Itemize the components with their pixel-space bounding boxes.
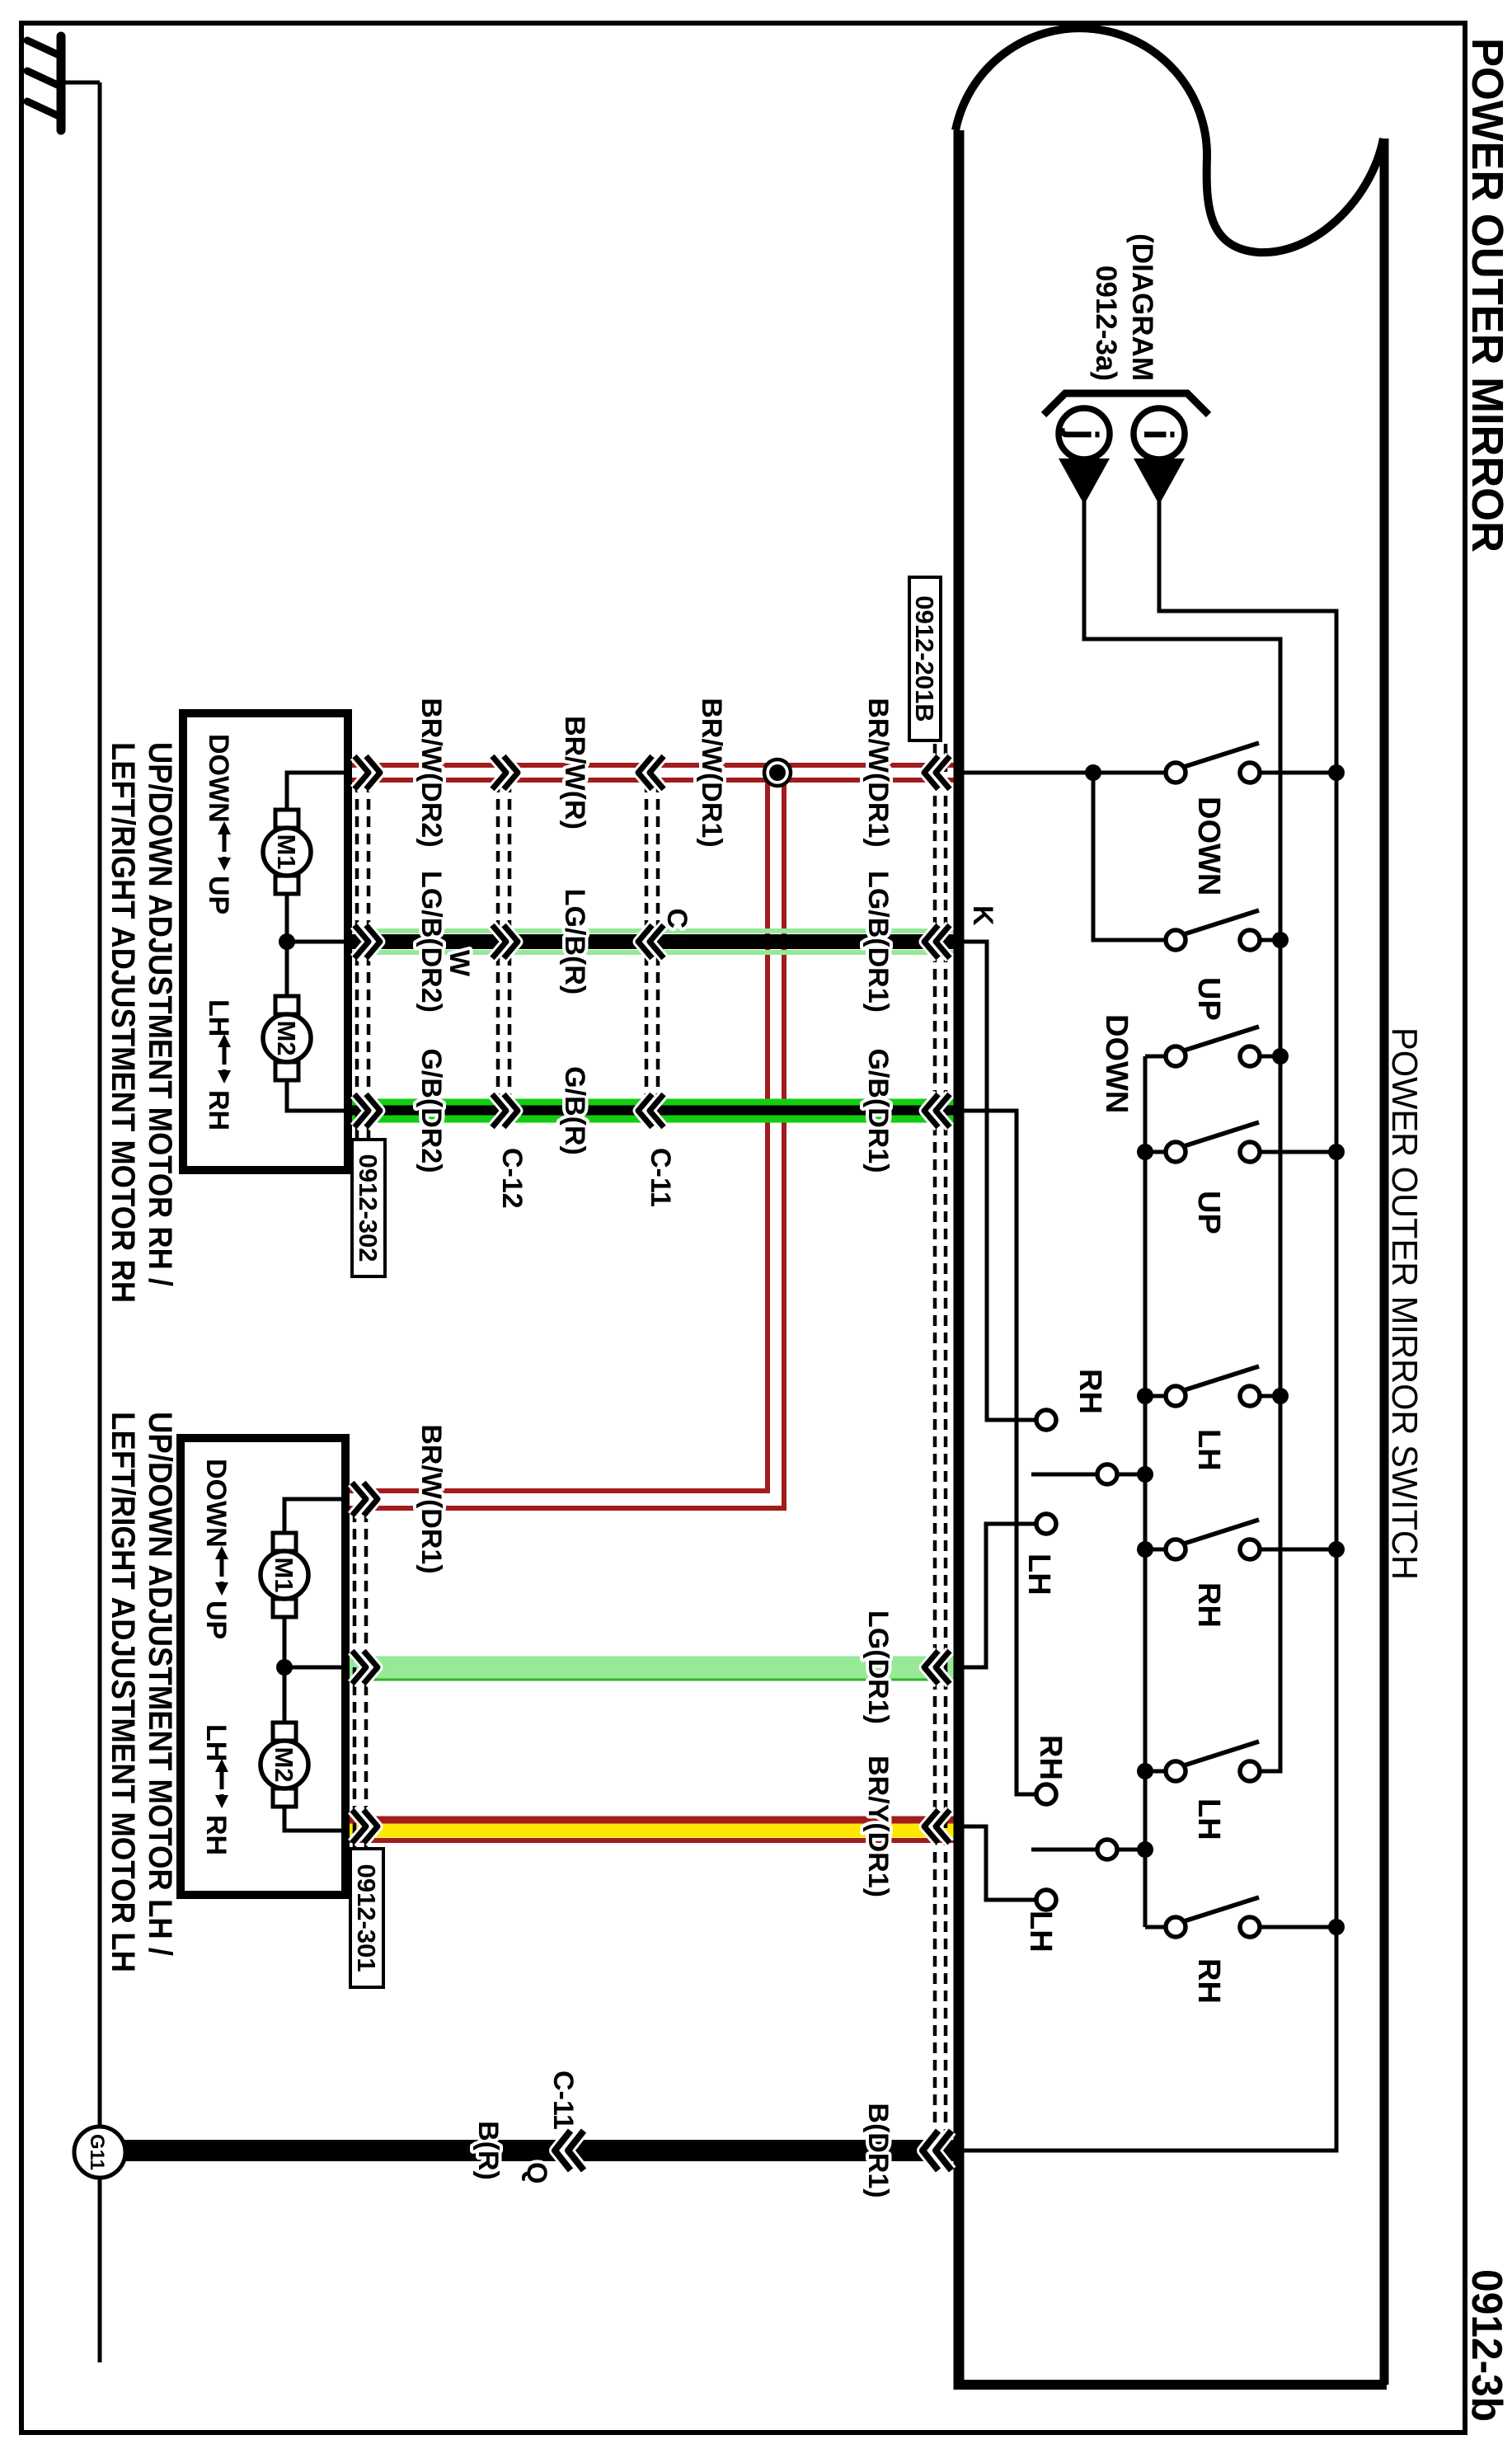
svg-text:RH: RH (1033, 1735, 1068, 1780)
svg-text:RH: RH (1191, 1582, 1226, 1628)
svg-text:UP/DOWN ADJUSTMENT MOTOR LH /: UP/DOWN ADJUSTMENT MOTOR LH / (142, 1412, 178, 1956)
0912-301 label box (350, 1849, 383, 1987)
connector i arrow (1134, 458, 1185, 505)
svg-text:G11: G11 (86, 2134, 108, 2170)
svg-text:BR/Y(DR1): BR/Y(DR1) (862, 1756, 894, 1897)
wire G/B(DR1)+G/B(R)+G/B(DR2) vertical bright-green/black (348, 1099, 959, 1107)
RH motor internal wiring (287, 773, 348, 810)
G/B line from G/B pin to row2 RH contact (959, 1111, 1036, 1794)
wire from i to bus i (959, 501, 1336, 2151)
switch contact pair at x=1879 (RH) (1166, 1539, 1186, 1559)
svg-text:UP: UP (1191, 977, 1226, 1021)
svg-text:B(R): B(R) (472, 2121, 504, 2180)
svg-text:LEFT/RIGHT ADJUSTMENT MOTOR LH: LEFT/RIGHT ADJUSTMENT MOTOR LH (105, 1412, 141, 1972)
svg-text:0912-302: 0912-302 (354, 1154, 383, 1262)
svg-text:0912-3a): 0912-3a) (1090, 266, 1122, 381)
svg-text:RH: RH (200, 1815, 232, 1855)
svg-text:DOWN: DOWN (1099, 1014, 1134, 1113)
sw8 RH column (1145, 1925, 1165, 1930)
sw7 LH column (1145, 1770, 1165, 1774)
0912-301 connector dashed lines (364, 1511, 369, 1849)
connector i circle (1134, 408, 1185, 459)
switch contact pair at x=1281 (DOWN) (1166, 1046, 1186, 1066)
svg-text:LG(DR1): LG(DR1) (862, 1610, 894, 1724)
selector row1 RH contact (1036, 1410, 1056, 1430)
UP/DOWN+LEFT/RIGHT ADJUSTMENT MOTOR LH box (181, 1438, 345, 1895)
POWER OUTER MIRROR SWITCH box outline top edge (1380, 139, 1389, 2385)
svg-text:M2: M2 (270, 1746, 298, 1782)
svg-text:BR/W(DR1): BR/W(DR1) (696, 698, 727, 847)
UP/DOWN+LEFT/RIGHT ADJUSTMENT MOTOR RH box (183, 713, 348, 1170)
ground rail from ground symbol to G11 (98, 82, 102, 2362)
svg-text:LH: LH (1191, 1798, 1226, 1840)
wire LG(DR1) solid pale green to LH motor (345, 1657, 959, 1679)
connector 0912-201B label box (909, 577, 941, 740)
selector row2 RH contact (1036, 1784, 1056, 1804)
svg-text:C-11: C-11 (645, 1148, 676, 1207)
svg-text:LH: LH (1023, 1911, 1058, 1953)
0912-302 connector dashed lines (367, 782, 371, 1140)
wire from j to bus j (1084, 501, 1280, 1771)
svg-text:BR/W(DR2): BR/W(DR2) (416, 698, 447, 847)
B wire C-11 chevron (568, 2131, 584, 2170)
svg-text:j: j (1060, 428, 1106, 440)
common bar (1143, 1056, 1148, 1927)
svg-text:LH: LH (203, 999, 234, 1036)
selector row1 LH contact (1036, 1514, 1056, 1534)
BR/Y line from BR/Y pin to row2 LH contact (959, 1826, 1036, 1900)
svg-text:W: W (444, 950, 475, 977)
connector j circle (1059, 408, 1110, 459)
connector 0912-201B dashed lines (944, 744, 948, 2137)
switch box pin chevrons (936, 756, 950, 789)
svg-text:LEFT/RIGHT ADJUSTMENT MOTOR RH: LEFT/RIGHT ADJUSTMENT MOTOR RH (105, 742, 141, 1303)
bank B UP switch column (1145, 1150, 1165, 1154)
svg-text:M1: M1 (272, 834, 301, 869)
ground G11 circle (74, 2127, 125, 2178)
svg-text:DOWN: DOWN (203, 734, 234, 823)
C-11 chevrons (650, 756, 664, 789)
selector row1 blade (1031, 1473, 1097, 1477)
motor M1 (273, 1533, 296, 1551)
wire UP switch top to bus j (1260, 938, 1280, 942)
switch contact pair at x=937 (DOWN) (1166, 763, 1186, 783)
wire LG/B(DR1)+LG/B(R)+LG/B(DR2) vertical pale-green/black (348, 928, 959, 933)
bracket for diagram reference (1044, 393, 1209, 415)
svg-text:0912-301: 0912-301 (352, 1864, 381, 1972)
svg-text:POWER OUTER MIRROR SWITCH: POWER OUTER MIRROR SWITCH (1384, 1027, 1425, 1580)
C-12 connector dashed lines (508, 782, 512, 1107)
svg-text:M2: M2 (272, 1020, 301, 1055)
C-12 chevrons (492, 756, 506, 789)
switch contact pair at x=1397 (UP) (1166, 1142, 1186, 1162)
svg-text:0912-201B: 0912-201B (910, 595, 939, 722)
B(DR1) pin chevron (936, 2131, 951, 2170)
wire BR/Y(DR1) red/yellow to LH motor (345, 1817, 959, 1824)
switch box left break S-curve (956, 28, 1383, 252)
LH motor internal wiring (284, 1499, 345, 1533)
sw6 RH column (1145, 1548, 1165, 1552)
selector row2 pivot (1116, 1848, 1145, 1852)
svg-text:BR/W(DR1): BR/W(DR1) (862, 698, 894, 847)
svg-text:LH: LH (1191, 1429, 1226, 1471)
svg-text:LH: LH (200, 1724, 232, 1761)
C-11 connector dashed lines (656, 782, 660, 1107)
svg-text:LG/B(DR2): LG/B(DR2) (416, 871, 447, 1013)
svg-text:C: C (661, 908, 693, 928)
motor M1 (275, 810, 298, 828)
selector row1 pivot (1116, 1473, 1145, 1477)
svg-text:G/B(DR2): G/B(DR2) (416, 1048, 447, 1173)
svg-text:LH: LH (1021, 1554, 1056, 1596)
LH motor box pin chevrons (352, 1483, 366, 1516)
svg-text:G/B(DR1): G/B(DR1) (862, 1048, 894, 1173)
K line from LG/B pin to row1 RH contact (959, 942, 1036, 1420)
svg-text:RH: RH (1191, 1958, 1226, 2004)
connector j arrow (1059, 458, 1110, 505)
switch contact pair at x=2148 (LH) (1166, 1761, 1186, 1781)
svg-text:0912-3b: 0912-3b (1463, 2269, 1510, 2422)
svg-text:G/B(R): G/B(R) (559, 1066, 590, 1155)
RH motor box pin chevrons (355, 756, 369, 789)
svg-text:M1: M1 (270, 1557, 298, 1592)
svg-text:UP: UP (200, 1601, 232, 1639)
selector row2 blade (1031, 1848, 1097, 1852)
junction dots bank A (1085, 764, 1101, 781)
wire BR/W(DR1) vertical double dark-red from switch pin to RH motor (348, 763, 959, 768)
svg-text:UP: UP (203, 876, 234, 914)
switch contact pair at x=2337 (RH) (1166, 1917, 1186, 1937)
svg-text:(DIAGRAM: (DIAGRAM (1126, 233, 1158, 381)
switch box right edge (959, 2380, 1387, 2390)
svg-text:C-12: C-12 (496, 1148, 528, 1209)
svg-text:i: i (1135, 429, 1181, 440)
svg-text:BR/W(DR1): BR/W(DR1) (416, 1424, 447, 1573)
0912-302 label box (352, 1140, 385, 1276)
motor M2 (273, 1723, 296, 1741)
wire BR/W pin to DOWN switch bottom (959, 771, 1165, 775)
wire BR/W branch to LH motor (elbow) (345, 773, 784, 1508)
motor M2 (275, 996, 298, 1014)
junction ring on BR/W(DR1) branch (764, 759, 791, 786)
svg-text:K: K (967, 905, 998, 926)
svg-text:UP: UP (1191, 1191, 1226, 1234)
svg-text:POWER OUTER MIRROR: POWER OUTER MIRROR (1463, 38, 1512, 552)
switch box bottom edge (954, 130, 965, 2390)
svg-text:C-11: C-11 (547, 2071, 579, 2130)
svg-text:LG/B(R): LG/B(R) (559, 889, 590, 994)
svg-text:Q: Q (521, 2162, 552, 2183)
selector row2 LH contact (1036, 1890, 1056, 1910)
svg-text:DOWN: DOWN (1191, 797, 1226, 895)
LG line from LG pin to row1 LH contact (959, 1524, 1036, 1667)
svg-text:DOWN: DOWN (200, 1459, 232, 1548)
wire DOWN switch top to bus i (1260, 771, 1336, 775)
bank B DOWN switch column (1145, 1055, 1165, 1059)
svg-text:B(DR1): B(DR1) (862, 2103, 894, 2198)
svg-text:LG/B(DR1): LG/B(DR1) (862, 871, 894, 1013)
svg-text:BR/W(R): BR/W(R) (559, 716, 590, 830)
svg-text:RH: RH (203, 1090, 234, 1130)
switch contact pair at x=1140 (UP) (1166, 930, 1186, 950)
switch contact pair at x=1693 (LH) (1166, 1386, 1186, 1406)
svg-text:UP/DOWN ADJUSTMENT MOTOR RH /: UP/DOWN ADJUSTMENT MOTOR RH / (142, 742, 178, 1286)
wire B(DR1)/B(R) thick black from switch pin down to G11 (100, 2140, 959, 2161)
svg-text:RH: RH (1073, 1369, 1107, 1414)
ground symbol at rail end (63, 81, 100, 85)
sw5 LH column (1145, 1394, 1165, 1398)
branch to UP switch (1093, 773, 1165, 940)
